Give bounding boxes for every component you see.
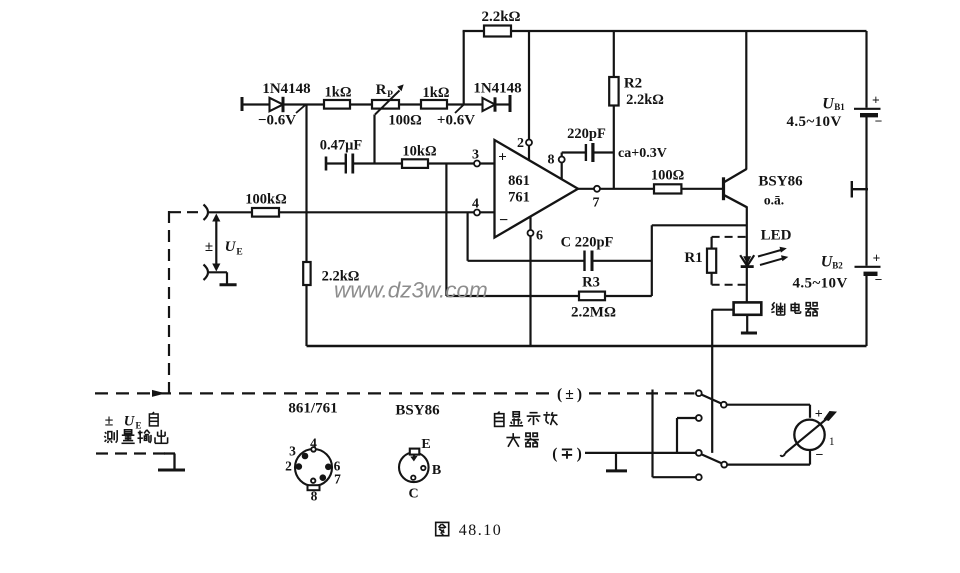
wire [446, 295, 579, 297]
op-amp U1 861/761 [495, 140, 579, 238]
svg-text:B2: B2 [832, 261, 843, 271]
label + input [498, 150, 507, 166]
wire [653, 476, 696, 478]
label o.a. [764, 193, 784, 208]
svg-text:R3: R3 [582, 275, 600, 291]
capacitor 0.47uF [346, 154, 353, 174]
pin dot 2 [296, 463, 303, 470]
label pin 3 [472, 148, 479, 163]
svg-text:861/761: 861/761 [288, 401, 337, 417]
svg-text:8: 8 [548, 153, 555, 168]
label 1N4148 (D1) [262, 81, 310, 97]
svg-text:R2: R2 [624, 76, 642, 92]
label 220pF [567, 126, 606, 142]
wire [681, 188, 723, 190]
label 861 [508, 173, 530, 189]
wire [809, 449, 811, 464]
svg-text:+: + [815, 407, 823, 422]
svg-text:R1: R1 [684, 250, 702, 266]
ground (UE source) [220, 283, 237, 286]
wire: column up to top 2.2k resistor [463, 31, 465, 105]
svg-text:2.2MΩ: 2.2MΩ [571, 305, 616, 321]
label pin 4 (pinout) [310, 436, 317, 451]
pin 2 circle [526, 140, 532, 146]
source UE double arrow [212, 214, 220, 272]
pin dot 3 [302, 453, 309, 460]
label zi (Chinese) [149, 412, 158, 426]
svg-text:2.2kΩ: 2.2kΩ [626, 92, 664, 108]
node: junction at +0.6V point [455, 105, 464, 113]
label C (pinout) [408, 487, 418, 502]
IC tab 861/761 [308, 485, 320, 490]
label 2.2kohm (R2) [626, 92, 664, 108]
wire: 2.2k column [305, 212, 307, 346]
svg-text:4: 4 [310, 436, 317, 451]
label + (meter) [815, 407, 823, 422]
label 100kohm [245, 192, 286, 208]
label - input [499, 212, 508, 229]
pin dot 7 [320, 474, 327, 481]
wire: dashed input stub [170, 211, 201, 213]
pin dot 6 [325, 464, 332, 471]
label 4.5-10V (UB1) [787, 114, 842, 130]
pin 6 circle [528, 230, 534, 236]
wire: column from pin-3 row down to R3 row [445, 164, 447, 297]
label pin 2 (pinout) [285, 459, 292, 474]
svg-text:0.47μF: 0.47μF [320, 138, 363, 154]
label self-display amplifier line1 (Chinese) [495, 412, 558, 427]
pin 8 circle [559, 157, 565, 163]
label 2.2kohm [322, 269, 360, 285]
label B (pinout) [432, 463, 441, 478]
wire [865, 275, 867, 347]
pin 4 circle [474, 210, 480, 216]
wire: 100k to pin 4 [279, 211, 495, 213]
label RP [376, 82, 394, 100]
label 0.47uF [320, 138, 363, 154]
terminal: right test point of diode branch [509, 95, 512, 112]
wire [865, 31, 867, 108]
svg-text:−: − [875, 114, 883, 129]
svg-text:U: U [225, 239, 237, 255]
label - (UB2) [875, 272, 883, 287]
wire [727, 404, 810, 406]
label +0.6V [437, 113, 475, 129]
resistor 2.2k (input divider) [303, 262, 310, 285]
svg-text:B: B [432, 463, 441, 478]
label self-display amplifier line2 (Chinese) [506, 433, 539, 447]
svg-text:BSY86: BSY86 [758, 174, 803, 190]
relay K1 coil [734, 302, 762, 314]
svg-text:C 220pF: C 220pF [561, 235, 614, 251]
battery mid tap [852, 181, 868, 198]
label pin 7 [593, 196, 600, 211]
pin dot 8 [311, 479, 315, 483]
resistor 100R (base) [654, 184, 681, 193]
wire [447, 103, 482, 105]
wire [677, 417, 696, 419]
label 2.2kohm (top) [481, 9, 520, 25]
switch contact a1 [696, 390, 702, 396]
wire [353, 162, 402, 164]
wire [865, 116, 867, 266]
label pin 8 [548, 153, 555, 168]
wire [326, 162, 346, 164]
svg-text:( ∓ ): ( ∓ ) [552, 446, 582, 463]
svg-text:4.5~10V: 4.5~10V [787, 114, 842, 130]
label pin 8 (pinout) [311, 489, 318, 504]
wire: dashed measurement line (right) [589, 392, 695, 394]
wire: dashed input column [168, 211, 170, 394]
label C 220pF [561, 235, 614, 251]
transistor Q1 BSY86 base bar [722, 177, 725, 200]
label (-+) [552, 446, 582, 463]
label pin 6 [536, 229, 543, 244]
svg-text:U: U [124, 414, 136, 430]
label 761 [508, 190, 530, 206]
wire [241, 103, 269, 105]
svg-text:−: − [499, 212, 508, 229]
resistor 100k [252, 208, 279, 217]
label pin 7 (pinout) [334, 472, 341, 487]
wire [562, 151, 586, 153]
label - (UB1) [875, 114, 883, 129]
label 2.2Mohm [571, 305, 616, 321]
wire: left bypass column [651, 390, 653, 478]
resistor 1k (second) [421, 100, 447, 109]
svg-text:−: − [816, 448, 824, 463]
svg-text:+0.6V: +0.6V [437, 113, 475, 129]
wire: feedback column [651, 225, 653, 296]
wire: vertical from diode row junction down to 100k row [305, 105, 307, 214]
potentiometer RP arrow [375, 84, 404, 114]
pin dot 4 [311, 447, 316, 452]
svg-text:C: C [408, 487, 418, 502]
svg-text:100Ω: 100Ω [388, 113, 421, 129]
label pin 2 [517, 136, 524, 151]
figure caption (Chinese + number) [436, 522, 503, 539]
svg-text:6: 6 [536, 229, 543, 244]
watermark [334, 278, 488, 303]
svg-text:www.dz3w.com: www.dz3w.com [334, 278, 488, 303]
svg-text:+: + [873, 251, 881, 266]
svg-text:2: 2 [285, 459, 292, 474]
svg-text:−0.6V: −0.6V [258, 113, 296, 129]
svg-text:R: R [376, 82, 387, 98]
label 861/761 (pinout title) [288, 401, 337, 417]
transistor package outline BSY86 [399, 453, 429, 483]
label 1 (meter) [829, 436, 835, 448]
svg-text:4.5~10V: 4.5~10V [793, 276, 848, 292]
svg-text:8: 8 [311, 489, 318, 504]
label measurement output (Chinese) [104, 430, 167, 444]
svg-text:861: 861 [508, 173, 530, 189]
resistor R1 bottom lead [710, 273, 712, 285]
switch contact a2 [721, 402, 727, 408]
wire [468, 260, 585, 262]
LED light arrow 1 [758, 247, 787, 257]
resistor R2 body [609, 77, 618, 106]
wire: bottom ground rail [307, 345, 867, 347]
svg-text:ca+0.3V: ca+0.3V [618, 146, 667, 161]
LED D3 [740, 255, 754, 266]
switch contact d (bottom) [696, 474, 702, 480]
switch contact b2 [721, 462, 727, 468]
svg-text:1kΩ: 1kΩ [325, 85, 352, 101]
pin 8 stub [561, 153, 563, 180]
svg-text:+: + [498, 150, 507, 166]
meter M1 [794, 420, 824, 450]
terminal: 0.47uF input test point [325, 157, 328, 171]
svg-text:1kΩ: 1kΩ [423, 85, 450, 101]
wire: dashed measurement line (left) [95, 392, 549, 394]
transistor Q1 collector [724, 169, 747, 183]
wire: relay column down to switch pole [711, 310, 713, 453]
wire [209, 271, 227, 273]
svg-text:E: E [236, 248, 242, 258]
wire: (-+) common row [585, 452, 696, 454]
svg-text:o.ā.: o.ā. [764, 193, 784, 208]
emitter arrow BSY86 [410, 455, 417, 462]
wire: top supply rail [511, 30, 867, 32]
svg-text:E: E [135, 421, 141, 431]
svg-text:100Ω: 100Ω [651, 168, 684, 184]
label relay (Chinese) [771, 302, 818, 315]
resistor 2.2k (top feedback) [484, 26, 511, 37]
label + (UB1) [872, 93, 880, 108]
node: junction diode row / 2.2k feedback column [296, 105, 306, 113]
wire [592, 260, 652, 262]
label +- [205, 239, 213, 255]
svg-text:48.10: 48.10 [459, 522, 503, 539]
svg-text:2: 2 [517, 136, 524, 151]
wire: dashed R1-LED bridge top [712, 236, 747, 238]
svg-text:1: 1 [829, 436, 835, 448]
label BSY86 [758, 174, 803, 190]
label pin 3 (pinout) [289, 444, 296, 459]
label 10kohm [402, 144, 436, 160]
package tab BSY86 [410, 449, 420, 455]
terminal: upper input jack [204, 205, 209, 221]
battery UB1 [854, 109, 881, 115]
label R2 [624, 76, 642, 92]
resistor 10k [402, 159, 428, 168]
ground (relay) [741, 332, 757, 335]
label - (meter) [816, 448, 824, 463]
pin 7 circle [594, 186, 600, 192]
svg-text:7: 7 [334, 472, 341, 487]
capacitor 220pF (pin 8) [586, 143, 593, 162]
terminal: left test point of diode branch [241, 97, 244, 111]
label BSY86 (pinout title) [395, 403, 440, 419]
resistor R3 body [579, 292, 605, 301]
wire: dashed R1-LED bridge bottom [712, 284, 747, 286]
label 4.5-10V (UB2) [793, 276, 848, 292]
svg-text:LED: LED [761, 228, 792, 244]
label UB1 [822, 96, 845, 113]
label R1 [684, 250, 702, 266]
wire: RP wiper down to 0.47uF row [373, 115, 375, 164]
resistor R1 top lead [710, 237, 712, 249]
label -0.6V [258, 113, 296, 129]
resistor 1k (first) [324, 100, 350, 109]
wire: feedback to emitter node [652, 224, 747, 226]
switch arm 1 [701, 395, 721, 404]
wire: R2 column from rail down to output node [613, 31, 615, 189]
svg-text:7: 7 [593, 196, 600, 211]
label R3 [582, 275, 600, 291]
pin dot B [421, 466, 425, 470]
switch arm 2 [701, 454, 722, 463]
wire [593, 151, 614, 153]
pin dot C [411, 476, 415, 480]
ground (common row) [606, 453, 627, 471]
wire: collector to rail [745, 31, 747, 170]
svg-text:BSY86: BSY86 [395, 403, 440, 419]
svg-text:2.2kΩ: 2.2kΩ [481, 9, 520, 25]
wire [727, 464, 810, 466]
switch contact b1 [696, 450, 702, 456]
wire [495, 103, 510, 105]
svg-text:3: 3 [289, 444, 296, 459]
svg-text:±: ± [105, 413, 114, 430]
label +-UE (output) [105, 413, 142, 431]
wire: dashed output stub [96, 452, 165, 454]
wire [209, 211, 252, 213]
svg-text:P: P [387, 90, 393, 100]
wire: pin-4 row down to C row [467, 212, 469, 260]
wire [746, 315, 748, 332]
diode D2 1N4148 [483, 97, 496, 111]
transistor Q1 emitter [724, 195, 748, 208]
label ca+0.3V [618, 146, 667, 161]
wire: emitter column [746, 207, 748, 303]
label 1N4148 (D2) [473, 81, 521, 97]
wire: dashed output corner [164, 454, 175, 469]
resistor R1 body [707, 249, 716, 273]
label pin 4 [472, 197, 479, 212]
label + (UB2) [873, 251, 881, 266]
wire: 10k to pin 3 [428, 162, 495, 164]
label (+-) [557, 386, 582, 403]
wire [463, 30, 484, 32]
svg-text:100kΩ: 100kΩ [245, 192, 286, 208]
wire [809, 405, 811, 418]
label UB2 [821, 254, 844, 271]
ground (output stub) [158, 469, 185, 472]
pin 2 wire from rail into op-amp top edge [528, 31, 530, 161]
label LED [761, 228, 792, 244]
svg-text:10kΩ: 10kΩ [402, 144, 436, 160]
IC package outline 861/761 [295, 449, 332, 486]
meter needle arrow [781, 411, 838, 456]
arrow on dashed line [152, 390, 166, 397]
svg-text:±: ± [205, 239, 213, 255]
svg-text:761: 761 [508, 190, 530, 206]
wire [283, 103, 324, 105]
svg-text:1N4148: 1N4148 [262, 81, 310, 97]
pin 3 circle [474, 161, 480, 167]
svg-text:E: E [421, 437, 430, 452]
label pin 6 (pinout) [334, 459, 341, 474]
wire [226, 272, 228, 283]
svg-text:1N4148: 1N4148 [473, 81, 521, 97]
pin 6 wire from bottom edge down to ground rail [529, 217, 531, 346]
switch contact c (middle) [696, 415, 702, 421]
capacitor C 220pF [585, 251, 593, 272]
svg-text:220pF: 220pF [567, 126, 606, 142]
svg-text:+: + [872, 93, 880, 108]
diode D1 1N4148 [270, 97, 284, 112]
wire [605, 295, 652, 297]
svg-text:B1: B1 [834, 102, 845, 112]
svg-text:( ± ): ( ± ) [557, 386, 582, 403]
svg-text:4: 4 [472, 197, 479, 212]
label 1kohm [325, 85, 352, 101]
LED light arrow 2 [760, 255, 788, 265]
label 100ohm [651, 168, 684, 184]
label 100ohm (RP) [388, 113, 421, 129]
wire [676, 418, 678, 453]
svg-text:3: 3 [472, 148, 479, 163]
wire [399, 103, 421, 105]
pin 7 output wire [578, 188, 654, 190]
terminal: lower input jack [204, 265, 209, 281]
svg-text:−: − [875, 272, 883, 287]
label E (pinout) [421, 437, 430, 452]
battery UB2 [855, 267, 881, 274]
wire [712, 309, 733, 311]
label UE [225, 239, 243, 258]
label 1kohm [423, 85, 450, 101]
wire [350, 103, 372, 105]
potentiometer RP body [372, 100, 399, 109]
